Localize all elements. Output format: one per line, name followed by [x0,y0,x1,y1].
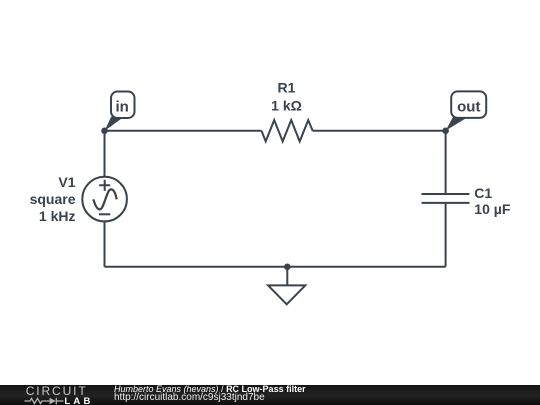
svg-text:square: square [30,191,76,207]
svg-text:out: out [457,99,480,116]
svg-text:LAB: LAB [64,396,93,405]
logo resistor zigzag [25,398,50,403]
footer author line [114,385,534,395]
node out bubble [451,91,486,118]
wire left vertical above source [104,131,106,177]
wire right vertical above capacitor [445,131,447,194]
node junction dot in [101,128,108,135]
svg-text:in: in [116,99,129,116]
voltage source V1 circle [82,177,127,222]
svg-text:V1: V1 [58,174,75,190]
node junction dot out [442,128,449,135]
footer url line [114,393,534,403]
node junction dot ground [284,264,291,271]
footer watermark bar [0,385,540,405]
ground triangle [268,285,305,304]
capacitor C1 top plate [422,193,470,195]
wire top-left horizontal (in node to resistor) [105,130,262,132]
svg-text:1 kΩ: 1 kΩ [271,98,302,114]
wire right vertical below capacitor [445,203,447,267]
svg-text:R1: R1 [278,80,296,96]
svg-text:C1: C1 [474,185,492,201]
wire top-right horizontal (resistor to out node) [313,130,446,132]
voltage source V1 sine squiggle [93,189,116,209]
wire left vertical below source [104,222,106,267]
resistor R1 zigzag [262,120,313,141]
capacitor C1 bottom plate [422,202,470,204]
voltage source V1 plus sign [99,180,110,191]
logo diode symbol [50,398,56,404]
svg-text:10 µF: 10 µF [474,201,511,217]
node out bubble tail [446,117,468,131]
svg-text:1 kHz: 1 kHz [39,208,76,224]
ground stem [286,267,288,285]
node in bubble [111,92,135,119]
voltage source V1 minus sign [99,213,110,215]
wire bottom horizontal [105,266,446,268]
node in bubble tail [105,117,124,131]
